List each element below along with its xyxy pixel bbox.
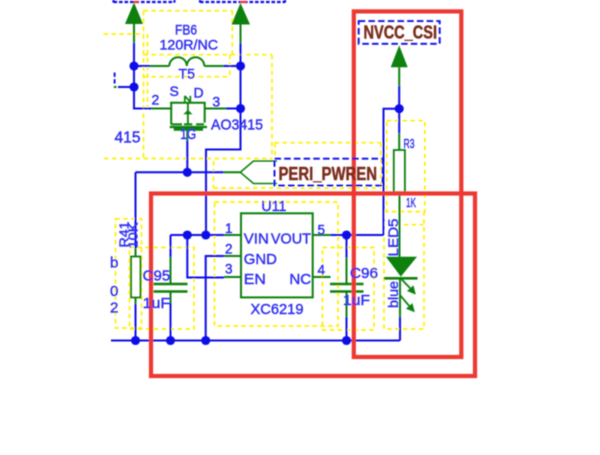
svg-text:VOUT: VOUT (271, 231, 311, 248)
svg-text:4: 4 (318, 263, 326, 278)
svg-text:b: b (110, 255, 118, 272)
svg-text:1G: 1G (180, 126, 196, 143)
svg-text:5: 5 (318, 223, 326, 238)
svg-text:VIN: VIN (244, 231, 269, 248)
svg-text:0: 0 (110, 283, 118, 300)
svg-text:1K: 1K (406, 195, 416, 210)
svg-text:1: 1 (225, 221, 233, 236)
svg-text:U11: U11 (261, 198, 286, 215)
svg-text:D: D (194, 85, 204, 101)
svg-text:blue: blue (385, 281, 401, 308)
svg-text:LED5: LED5 (385, 218, 401, 256)
svg-text:C95: C95 (143, 268, 171, 285)
svg-text:NVCC_CSI: NVCC_CSI (364, 23, 438, 43)
svg-text:NC: NC (289, 271, 311, 288)
svg-text:1uF: 1uF (143, 295, 171, 312)
svg-text:120R/NC: 120R/NC (160, 37, 219, 53)
svg-text:T5: T5 (179, 66, 196, 82)
svg-text:3: 3 (225, 262, 233, 277)
svg-text:10K: 10K (127, 222, 141, 249)
svg-text:3: 3 (212, 93, 220, 109)
svg-text:XC6219: XC6219 (251, 301, 304, 318)
svg-text:C96: C96 (350, 265, 378, 282)
svg-text:EN: EN (244, 271, 266, 288)
svg-text:S: S (170, 83, 179, 99)
svg-text:2: 2 (152, 92, 160, 108)
svg-text:415: 415 (115, 130, 141, 147)
svg-text:PERI_PWREN: PERI_PWREN (279, 164, 378, 184)
svg-text:1uF: 1uF (343, 292, 370, 309)
svg-text:AO3415: AO3415 (211, 117, 263, 134)
svg-text:2: 2 (110, 300, 118, 317)
svg-text:R3: R3 (404, 137, 415, 151)
svg-text:GND: GND (244, 251, 277, 268)
svg-text:FB6: FB6 (175, 22, 197, 38)
svg-text:2: 2 (225, 242, 233, 257)
